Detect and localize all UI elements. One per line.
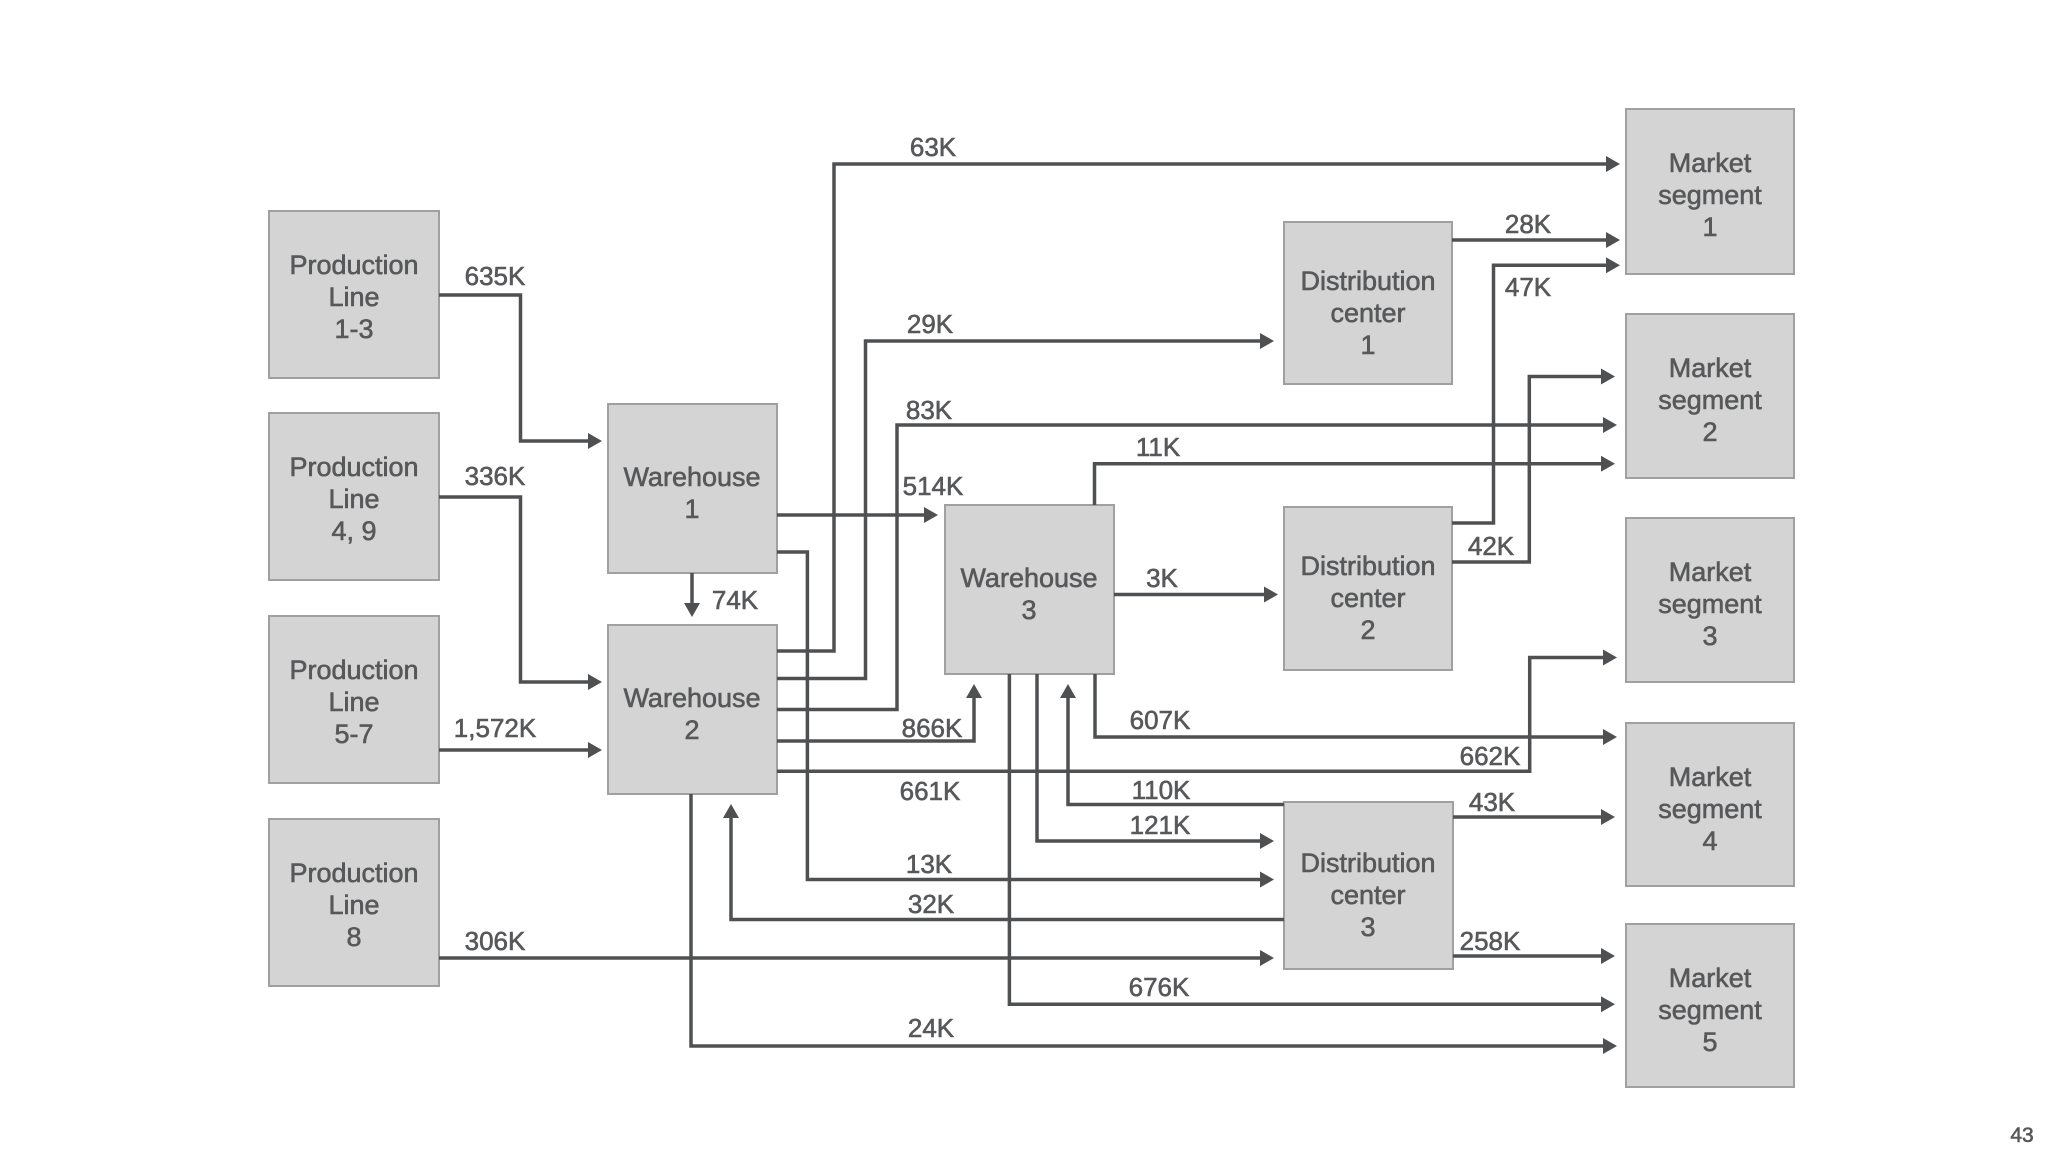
svg-text:Line: Line bbox=[328, 687, 379, 717]
svg-text:center: center bbox=[1330, 880, 1405, 910]
svg-text:Distribution: Distribution bbox=[1300, 848, 1435, 878]
svg-text:Warehouse: Warehouse bbox=[623, 683, 760, 713]
svg-text:43K: 43K bbox=[1469, 787, 1516, 817]
svg-text:24K: 24K bbox=[908, 1013, 955, 1043]
flow 3K Warehouse 3 to Distribution center 2 bbox=[1114, 563, 1264, 595]
svg-text:5-7: 5-7 bbox=[334, 719, 373, 749]
flow 28K Distribution center 1 to Market segment 1 bbox=[1452, 209, 1606, 240]
svg-text:Market: Market bbox=[1669, 353, 1752, 383]
flow 607K Warehouse 3 to Market segment 4 bbox=[1095, 674, 1603, 737]
box Distribution center 2 bbox=[1284, 507, 1452, 670]
svg-text:63K: 63K bbox=[910, 132, 957, 162]
flow 13K Warehouse 1 to Distribution center 3 bbox=[777, 552, 1260, 880]
svg-text:11K: 11K bbox=[1136, 432, 1181, 462]
flow 47K Distribution center 2 to Market segment 1 bbox=[1452, 265, 1606, 523]
flow 32K Distribution center 3 to Warehouse 2 bbox=[731, 818, 1284, 920]
svg-text:2: 2 bbox=[1360, 615, 1375, 645]
svg-text:28K: 28K bbox=[1505, 209, 1552, 239]
svg-text:866K: 866K bbox=[902, 713, 963, 743]
svg-text:121K: 121K bbox=[1130, 810, 1191, 840]
svg-text:47K: 47K bbox=[1505, 272, 1552, 302]
svg-text:306K: 306K bbox=[465, 926, 526, 956]
svg-text:83K: 83K bbox=[906, 395, 953, 425]
svg-text:Market: Market bbox=[1669, 762, 1752, 792]
flow 258K Distribution center 3 to Market segment 5 bbox=[1453, 926, 1601, 956]
flow 662K Warehouse 2 to Market segment 3 bbox=[777, 658, 1603, 772]
flow 1,572K Production Line 5-7 to Warehouse 2 bbox=[439, 713, 588, 750]
svg-text:5: 5 bbox=[1702, 1027, 1717, 1057]
svg-text:13K: 13K bbox=[906, 849, 953, 879]
svg-text:8: 8 bbox=[346, 922, 361, 952]
svg-text:Warehouse: Warehouse bbox=[623, 462, 760, 492]
svg-text:3: 3 bbox=[1360, 912, 1375, 942]
svg-text:3: 3 bbox=[1702, 621, 1717, 651]
flow 635K Production Line 1-3 to Warehouse 1 bbox=[439, 261, 588, 441]
box Production Line 1-3 bbox=[269, 211, 439, 378]
box Warehouse 3 bbox=[945, 505, 1114, 674]
svg-text:4, 9: 4, 9 bbox=[331, 516, 376, 546]
box Production Line 8 bbox=[269, 819, 439, 986]
svg-text:3K: 3K bbox=[1146, 563, 1178, 593]
svg-text:3: 3 bbox=[1021, 595, 1036, 625]
svg-text:center: center bbox=[1330, 298, 1405, 328]
svg-text:center: center bbox=[1330, 583, 1405, 613]
flow 42K Distribution center 2 to Market segment 2 bbox=[1452, 377, 1601, 563]
flow 676K Warehouse 3 to Market segment 5 bbox=[1009, 674, 1601, 1004]
flow 336K Production Line 4, 9 to Warehouse 2 bbox=[439, 461, 588, 682]
svg-text:1: 1 bbox=[1702, 212, 1717, 242]
svg-text:Warehouse: Warehouse bbox=[960, 563, 1097, 593]
svg-text:Production: Production bbox=[289, 655, 418, 685]
flow 43K Distribution center 3 to Market segment 4 bbox=[1453, 787, 1601, 817]
flow 83K Warehouse 2 to Market segment 2 bbox=[777, 395, 1603, 710]
svg-text:Market: Market bbox=[1669, 963, 1752, 993]
svg-text:607K: 607K bbox=[1130, 705, 1191, 735]
svg-text:43: 43 bbox=[2010, 1124, 2033, 1147]
flow 866K Warehouse 2 up into Warehouse 3 bbox=[777, 698, 974, 743]
svg-text:336K: 336K bbox=[465, 461, 526, 491]
box Distribution center 1 bbox=[1284, 222, 1452, 384]
box Market segment 1 bbox=[1626, 109, 1794, 274]
flow 121K Warehouse 3 to Distribution center 3 bbox=[1037, 674, 1260, 841]
svg-text:segment: segment bbox=[1658, 180, 1762, 210]
svg-text:Line: Line bbox=[328, 484, 379, 514]
svg-text:Production: Production bbox=[289, 858, 418, 888]
svg-text:74K: 74K bbox=[712, 585, 759, 615]
flow 110K Distribution center 3 to Warehouse 3 bbox=[1068, 698, 1284, 805]
svg-text:2: 2 bbox=[684, 715, 699, 745]
flow 306K Production Line 8 to Distribution center 3 bbox=[439, 926, 1260, 958]
svg-text:1-3: 1-3 bbox=[334, 314, 373, 344]
flow 74K Warehouse 1 down to Warehouse 2 bbox=[692, 573, 759, 615]
svg-text:2: 2 bbox=[1702, 417, 1717, 447]
svg-text:Production: Production bbox=[289, 250, 418, 280]
svg-text:258K: 258K bbox=[1460, 926, 1521, 956]
box Warehouse 1 bbox=[608, 404, 777, 573]
svg-text:segment: segment bbox=[1658, 589, 1762, 619]
flow 29K Warehouse 2 to Distribution center 1 bbox=[777, 309, 1260, 679]
box Production Line 4, 9 bbox=[269, 413, 439, 580]
box Market segment 4 bbox=[1626, 723, 1794, 886]
svg-text:514K: 514K bbox=[903, 471, 964, 501]
svg-text:662K: 662K bbox=[1460, 741, 1521, 771]
svg-text:42K: 42K bbox=[1468, 531, 1515, 561]
flow 11K Warehouse 3 to Market segment 2 bbox=[1095, 432, 1602, 505]
svg-text:Market: Market bbox=[1669, 148, 1752, 178]
svg-text:1,572K: 1,572K bbox=[454, 713, 537, 743]
svg-text:segment: segment bbox=[1658, 385, 1762, 415]
svg-text:1: 1 bbox=[1360, 330, 1375, 360]
svg-text:4: 4 bbox=[1702, 826, 1717, 856]
box Market segment 5 bbox=[1626, 924, 1794, 1087]
svg-text:661K: 661K bbox=[900, 776, 961, 806]
svg-text:29K: 29K bbox=[907, 309, 954, 339]
svg-text:Market: Market bbox=[1669, 557, 1752, 587]
svg-text:110K: 110K bbox=[1132, 775, 1191, 805]
svg-text:635K: 635K bbox=[465, 261, 526, 291]
svg-text:Line: Line bbox=[328, 890, 379, 920]
svg-text:1: 1 bbox=[684, 494, 699, 524]
svg-text:Distribution: Distribution bbox=[1300, 551, 1435, 581]
flow 514K Warehouse 1 to Warehouse 3 bbox=[777, 471, 964, 515]
svg-text:Production: Production bbox=[289, 452, 418, 482]
flow 63K Warehouse 2 to Market segment 1 bbox=[777, 132, 1606, 651]
flow 24K Warehouse 2 to Market segment 5 bbox=[691, 794, 1603, 1046]
box Market segment 2 bbox=[1626, 314, 1794, 478]
box Market segment 3 bbox=[1626, 518, 1794, 682]
box Distribution center 3 bbox=[1284, 802, 1453, 969]
svg-text:Line: Line bbox=[328, 282, 379, 312]
svg-text:676K: 676K bbox=[1129, 972, 1190, 1002]
svg-text:Distribution: Distribution bbox=[1300, 266, 1435, 296]
svg-text:32K: 32K bbox=[908, 889, 955, 919]
box Warehouse 2 bbox=[608, 625, 777, 794]
box Production Line 5-7 bbox=[269, 616, 439, 783]
svg-text:segment: segment bbox=[1658, 995, 1762, 1025]
svg-text:segment: segment bbox=[1658, 794, 1762, 824]
